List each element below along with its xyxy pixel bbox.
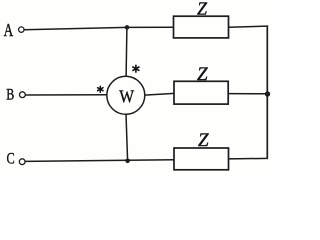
svg-text:W: W: [119, 86, 134, 106]
svg-text:B: B: [6, 87, 14, 104]
junction node on phase A: [125, 25, 130, 30]
wire phase B (wattmeter to impedance Z2): [145, 93, 175, 95]
wire neutral bus (right vertical): [266, 26, 269, 158]
impedance Z2 body: [174, 81, 228, 104]
svg-text:A: A: [4, 20, 14, 40]
wire phase C (terminal C to impedance Z3): [25, 160, 174, 162]
wire wattmeter current-coil feed (junction A down to wattmeter top): [125, 27, 128, 76]
impedance Z1 body: [174, 16, 229, 38]
terminal B: [20, 92, 26, 98]
wire phase C (impedance Z3 to neutral bus): [229, 157, 268, 160]
impedance Z3 body: [174, 148, 229, 170]
junction node on phase C: [125, 159, 130, 164]
terminal A: [19, 27, 24, 32]
svg-text:C: C: [7, 150, 15, 167]
wire wattmeter voltage-coil return (wattmeter bottom down to phase C): [126, 114, 128, 161]
wattmeter W1 body: [107, 76, 145, 114]
wire phase B (impedance Z2 to neutral bus): [228, 93, 267, 95]
polarity mark asterisk (wattmeter voltage coil, upper right): [133, 65, 139, 72]
junction node on neutral bus: [265, 91, 270, 96]
wire phase B (terminal B to wattmeter): [26, 94, 108, 96]
terminal C: [19, 159, 25, 165]
polarity mark asterisk (wattmeter current coil, left of W): [98, 86, 103, 92]
wire phase A (impedance Z1 to neutral bus): [229, 26, 267, 27]
wire phase A (terminal A to impedance Z1): [24, 27, 173, 30]
